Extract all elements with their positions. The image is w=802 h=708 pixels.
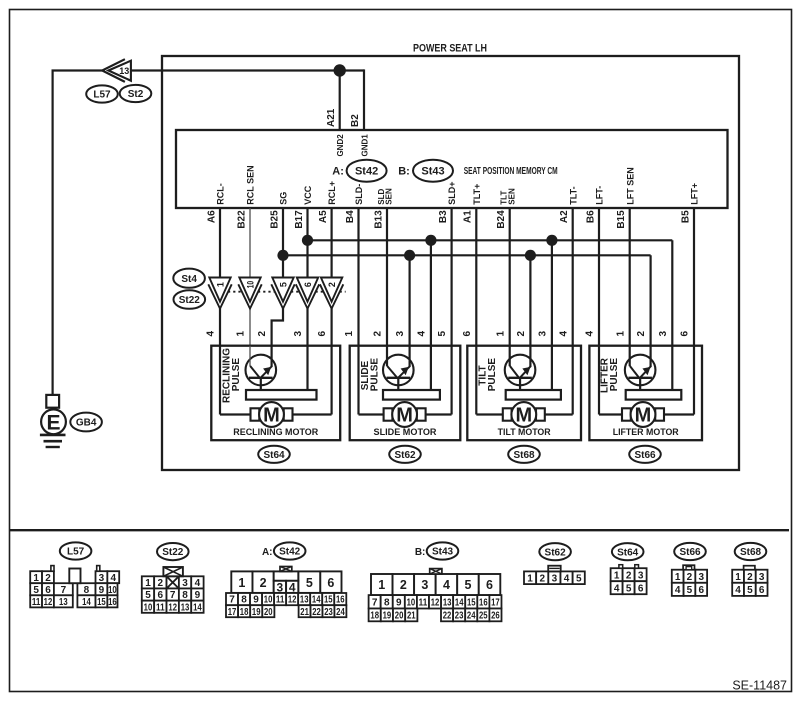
svg-text:St42: St42 [355, 166, 378, 178]
svg-text:6: 6 [486, 578, 493, 592]
svg-text:A5: A5 [318, 210, 329, 223]
svg-text:10: 10 [245, 281, 255, 289]
svg-text:16: 16 [479, 597, 488, 608]
svg-text:PULSE: PULSE [369, 358, 380, 392]
svg-text:A1: A1 [463, 210, 474, 223]
svg-text:St66: St66 [634, 450, 656, 461]
svg-text:6: 6 [317, 330, 328, 336]
svg-text:SEAT POSITION MEMORY CM: SEAT POSITION MEMORY CM [464, 165, 558, 177]
svg-text:4: 4 [585, 330, 596, 336]
svg-text:9: 9 [99, 585, 105, 596]
svg-text:4: 4 [735, 585, 741, 596]
svg-text:2: 2 [327, 282, 337, 287]
svg-text:LFT-: LFT- [595, 186, 605, 205]
svg-text:8: 8 [384, 597, 390, 608]
svg-text:St22: St22 [179, 295, 201, 306]
svg-text:15: 15 [97, 597, 106, 608]
svg-text:18: 18 [370, 611, 379, 622]
svg-text:21: 21 [300, 607, 309, 618]
svg-text:3: 3 [99, 573, 105, 584]
svg-text:3: 3 [421, 578, 428, 592]
svg-text:RCL SEN: RCL SEN [246, 165, 256, 204]
svg-text:A:: A: [332, 166, 344, 178]
svg-text:11: 11 [419, 597, 428, 608]
svg-text:TILT MOTOR: TILT MOTOR [498, 427, 551, 437]
svg-text:St64: St64 [263, 450, 285, 461]
svg-text:6: 6 [462, 330, 473, 336]
svg-text:B15: B15 [616, 210, 627, 229]
svg-text:16: 16 [108, 597, 117, 608]
svg-text:17: 17 [491, 597, 500, 608]
svg-text:2: 2 [257, 330, 268, 336]
svg-text:PULSE: PULSE [487, 358, 498, 392]
svg-text:2: 2 [687, 572, 693, 583]
svg-text:7: 7 [170, 590, 176, 601]
svg-text:2: 2 [539, 573, 545, 584]
svg-text:11: 11 [156, 602, 165, 613]
svg-text:RCL+: RCL+ [327, 181, 337, 205]
svg-text:LFT+: LFT+ [690, 183, 700, 205]
svg-text:SEN: SEN [507, 188, 516, 205]
svg-text:13: 13 [443, 597, 452, 608]
svg-text:5: 5 [626, 583, 632, 594]
svg-text:10: 10 [108, 585, 117, 596]
svg-text:LIFTER MOTOR: LIFTER MOTOR [613, 427, 679, 437]
svg-text:POWER SEAT LH: POWER SEAT LH [413, 43, 487, 55]
svg-text:4: 4 [675, 585, 681, 596]
svg-text:SE-11487: SE-11487 [732, 679, 787, 693]
svg-text:1: 1 [344, 330, 355, 336]
svg-text:26: 26 [491, 611, 500, 622]
svg-text:St66: St66 [679, 547, 701, 558]
svg-text:20: 20 [395, 611, 404, 622]
svg-text:9: 9 [195, 590, 201, 601]
svg-text:22: 22 [312, 607, 321, 618]
svg-text:3: 3 [538, 330, 549, 336]
svg-text:1: 1 [238, 576, 245, 590]
svg-text:5: 5 [687, 585, 693, 596]
svg-text:19: 19 [252, 607, 261, 618]
svg-text:LFT SEN: LFT SEN [625, 167, 635, 205]
svg-text:3: 3 [638, 570, 644, 581]
svg-text:3: 3 [658, 330, 669, 336]
svg-text:St68: St68 [740, 547, 762, 558]
svg-text:1: 1 [527, 573, 533, 584]
svg-text:B25: B25 [269, 210, 280, 229]
svg-text:1: 1 [615, 330, 626, 336]
svg-text:25: 25 [479, 611, 488, 622]
svg-text:4: 4 [443, 578, 450, 592]
svg-text:St4: St4 [181, 274, 197, 285]
svg-text:5: 5 [145, 590, 151, 601]
svg-text:2: 2 [516, 330, 527, 336]
svg-text:SLIDE MOTOR: SLIDE MOTOR [374, 427, 437, 437]
svg-text:A2: A2 [559, 210, 570, 223]
svg-text:1: 1 [145, 578, 151, 589]
svg-text:11: 11 [276, 595, 285, 606]
svg-text:15: 15 [467, 597, 476, 608]
svg-text:A6: A6 [206, 210, 217, 223]
svg-text:M: M [635, 405, 652, 427]
svg-text:12: 12 [168, 602, 177, 613]
svg-text:GB4: GB4 [76, 418, 97, 429]
svg-text:13: 13 [119, 66, 129, 76]
svg-text:5: 5 [437, 330, 448, 336]
svg-text:10: 10 [407, 597, 416, 608]
svg-text:14: 14 [193, 602, 202, 613]
svg-text:18: 18 [240, 607, 249, 618]
svg-text:7: 7 [61, 585, 67, 596]
svg-text:13: 13 [181, 602, 190, 613]
svg-text:2: 2 [45, 573, 51, 584]
svg-text:24: 24 [467, 611, 476, 622]
svg-text:23: 23 [324, 607, 333, 618]
svg-text:4: 4 [206, 330, 217, 336]
svg-text:St2: St2 [128, 89, 144, 100]
svg-text:5: 5 [33, 585, 39, 596]
svg-text:5: 5 [306, 576, 313, 590]
svg-text:1: 1 [33, 573, 39, 584]
svg-text:B6: B6 [585, 210, 596, 223]
svg-text:3: 3 [293, 330, 304, 336]
svg-text:TLT-: TLT- [568, 186, 578, 204]
svg-text:4: 4 [558, 330, 569, 336]
svg-text:10: 10 [264, 595, 273, 606]
svg-text:2: 2 [373, 330, 384, 336]
svg-text:2: 2 [747, 572, 753, 583]
svg-text:12: 12 [288, 595, 297, 606]
svg-text:23: 23 [455, 611, 464, 622]
svg-text:B3: B3 [438, 210, 449, 223]
svg-text:SLD+: SLD+ [447, 181, 457, 204]
svg-text:1: 1 [495, 330, 506, 336]
svg-text:2: 2 [260, 576, 267, 590]
svg-text:2: 2 [626, 570, 632, 581]
svg-text:St42: St42 [279, 547, 301, 558]
svg-text:B:: B: [415, 547, 426, 558]
svg-text:10: 10 [144, 602, 153, 613]
svg-text:B22: B22 [236, 210, 247, 229]
svg-text:M: M [396, 405, 413, 427]
svg-text:1: 1 [735, 572, 741, 583]
svg-text:St68: St68 [513, 450, 535, 461]
svg-text:16: 16 [336, 595, 345, 606]
svg-text:B13: B13 [373, 210, 384, 229]
svg-text:1: 1 [236, 330, 247, 336]
svg-text:L57: L57 [67, 547, 85, 558]
svg-text:St64: St64 [617, 547, 639, 558]
svg-text:TLT+: TLT+ [472, 184, 482, 205]
svg-text:19: 19 [383, 611, 392, 622]
svg-text:6: 6 [698, 585, 704, 596]
svg-text:9: 9 [396, 597, 402, 608]
svg-text:St62: St62 [545, 547, 567, 558]
svg-text:VCC: VCC [303, 185, 313, 205]
svg-text:B5: B5 [680, 210, 691, 223]
svg-text:B17: B17 [294, 210, 305, 229]
svg-text:PULSE: PULSE [609, 358, 620, 392]
svg-text:RECLINING MOTOR: RECLINING MOTOR [233, 427, 318, 437]
svg-text:15: 15 [324, 595, 333, 606]
svg-text:8: 8 [182, 590, 188, 601]
svg-text:St43: St43 [421, 166, 444, 178]
svg-text:6: 6 [638, 583, 644, 594]
svg-text:5: 5 [576, 573, 582, 584]
svg-text:A:: A: [262, 547, 273, 558]
svg-text:4: 4 [195, 578, 201, 589]
svg-text:14: 14 [312, 595, 321, 606]
svg-text:21: 21 [407, 611, 416, 622]
svg-text:6: 6 [158, 590, 164, 601]
svg-text:L57: L57 [93, 90, 111, 101]
svg-text:14: 14 [82, 597, 91, 608]
svg-text:4: 4 [564, 573, 570, 584]
svg-text:M: M [515, 405, 532, 427]
svg-text:11: 11 [32, 597, 41, 608]
svg-text:2: 2 [636, 330, 647, 336]
svg-text:1: 1 [675, 572, 681, 583]
svg-text:SLD-: SLD- [354, 184, 364, 205]
svg-text:8: 8 [241, 595, 247, 606]
svg-text:E: E [46, 411, 60, 434]
svg-text:GND2: GND2 [336, 134, 345, 157]
svg-text:13: 13 [300, 595, 309, 606]
svg-text:B4: B4 [345, 210, 356, 223]
svg-text:B24: B24 [496, 210, 507, 229]
svg-text:St22: St22 [162, 547, 184, 558]
svg-text:4: 4 [110, 573, 116, 584]
svg-text:B2: B2 [350, 114, 361, 127]
svg-text:13: 13 [59, 597, 68, 608]
svg-text:12: 12 [431, 597, 440, 608]
svg-text:3: 3 [395, 330, 406, 336]
svg-text:6: 6 [680, 330, 691, 336]
svg-text:17: 17 [228, 607, 237, 618]
svg-text:A21: A21 [326, 108, 337, 127]
svg-text:6: 6 [327, 576, 334, 590]
svg-text:14: 14 [455, 597, 464, 608]
svg-text:9: 9 [253, 595, 259, 606]
svg-text:3: 3 [698, 572, 704, 583]
svg-text:St62: St62 [394, 450, 416, 461]
svg-text:4: 4 [614, 583, 620, 594]
svg-text:5: 5 [747, 585, 753, 596]
svg-text:6: 6 [303, 282, 313, 287]
svg-text:B:: B: [398, 166, 410, 178]
svg-text:6: 6 [45, 585, 51, 596]
svg-text:M: M [263, 405, 280, 427]
svg-text:5: 5 [464, 578, 471, 592]
svg-text:SEN: SEN [385, 188, 394, 205]
svg-text:3: 3 [759, 572, 765, 583]
svg-text:20: 20 [264, 607, 273, 618]
svg-text:1: 1 [215, 282, 225, 287]
svg-text:1: 1 [614, 570, 620, 581]
svg-text:4: 4 [417, 330, 428, 336]
svg-text:2: 2 [158, 578, 164, 589]
svg-text:6: 6 [759, 585, 765, 596]
svg-text:7: 7 [229, 595, 235, 606]
svg-text:3: 3 [552, 573, 558, 584]
svg-text:12: 12 [44, 597, 53, 608]
svg-text:1: 1 [378, 578, 385, 592]
svg-text:St43: St43 [432, 547, 454, 558]
svg-text:3: 3 [182, 578, 188, 589]
svg-text:RCL-: RCL- [216, 183, 226, 205]
svg-text:8: 8 [84, 585, 90, 596]
svg-text:PULSE: PULSE [231, 358, 242, 392]
svg-text:24: 24 [336, 607, 345, 618]
svg-text:22: 22 [443, 611, 452, 622]
svg-text:GND1: GND1 [361, 134, 370, 157]
svg-text:7: 7 [372, 597, 378, 608]
svg-text:5: 5 [278, 282, 288, 287]
svg-text:2: 2 [400, 578, 407, 592]
svg-text:SG: SG [279, 192, 289, 205]
